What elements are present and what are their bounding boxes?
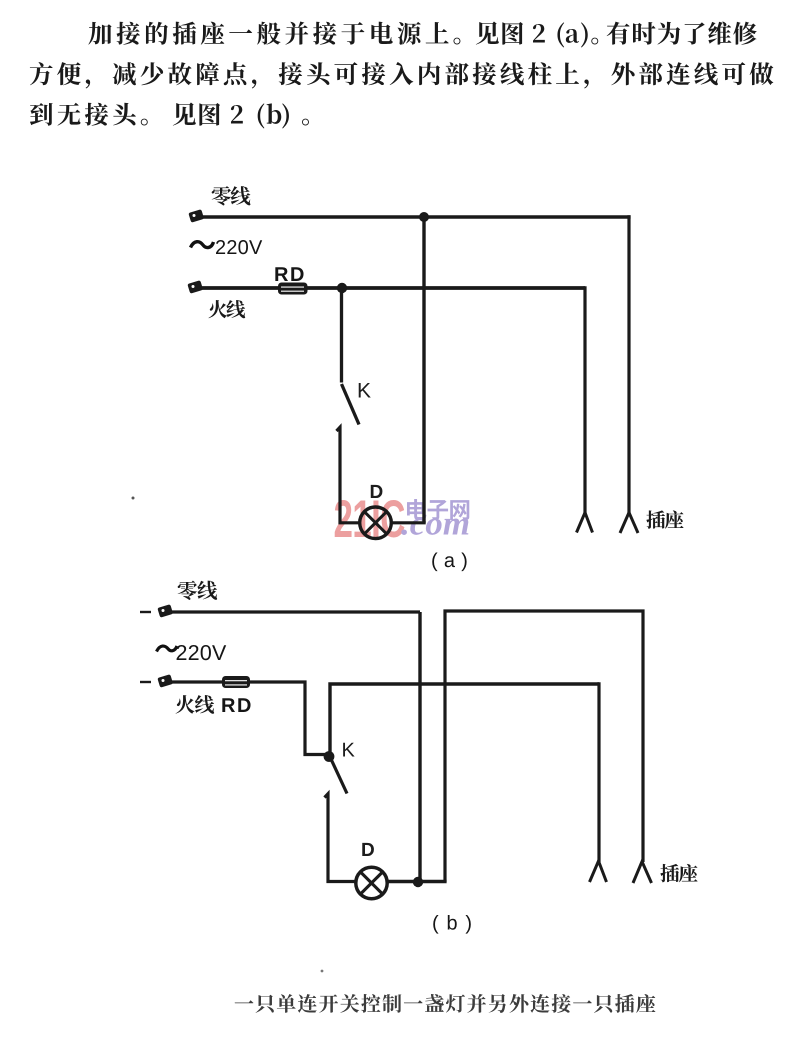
label 火线 (a) [209, 300, 246, 318]
wire: switch to lamp (b) [325, 794, 356, 882]
label ~220V (a) [191, 242, 214, 248]
wire: neutral down to socket prong N (a) [627, 215, 630, 513]
label 零线 (a) [212, 186, 251, 205]
node: neutral input terminal (a) [188, 209, 204, 223]
wire: neutral drop to lamp (a) [422, 217, 425, 523]
label RD (a) [275, 267, 303, 281]
wire: switch to lamp (a) [337, 427, 360, 523]
watermark .com [401, 518, 468, 535]
fuse RD (a) [278, 283, 308, 295]
caption (b) [433, 915, 471, 934]
wire: neutral horizontal (b) [167, 610, 420, 613]
junction dot: neutral at lamp wire (b) [413, 877, 423, 887]
label K (a) [359, 383, 371, 397]
junction dot: live to switch branch (a) [337, 283, 347, 293]
paragraph line 3 [30, 103, 309, 129]
socket prong N (a) [620, 513, 638, 534]
node: neutral input terminal (b) [140, 611, 151, 613]
wire: neutral drop to lamp (b) [418, 612, 421, 883]
lamp D (b) [356, 867, 387, 898]
wire: lamp terminal riser to socket prong N (b) [445, 611, 643, 882]
wire: lamp to neutral drop (a) [392, 521, 426, 524]
label 插座 (b) [660, 864, 697, 882]
node: live input terminal (a) [187, 280, 203, 294]
label 零线 (b) [178, 581, 217, 600]
label D (a) [371, 485, 383, 498]
label D (b) [362, 843, 374, 856]
watermark 电子网 [407, 499, 469, 520]
paragraph line 1 [88, 22, 756, 48]
label ~220V (b) [157, 646, 178, 652]
wire: live horizontal line (a) [196, 286, 585, 290]
fuse RD (b) [222, 676, 250, 688]
label K (b) [343, 743, 354, 757]
speck 1 [132, 497, 135, 500]
socket prong L (b) [590, 861, 607, 882]
label 插座 (a) [646, 510, 683, 528]
lamp D (a) [360, 507, 392, 539]
switch K blade (b) [331, 758, 348, 794]
socket prong L (a) [577, 513, 593, 533]
label 火线 RD (b) [176, 695, 215, 714]
socket prong N (b) [633, 862, 652, 884]
paragraph line 2 [30, 62, 774, 88]
wire: switch branch drop (a) [340, 288, 343, 383]
node: live input terminal (b) [140, 681, 151, 683]
junction dot: switch node (b) [324, 751, 335, 762]
junction dot: neutral to lamp branch (a) [419, 212, 429, 222]
wire: neutral horizontal line (a) [197, 215, 631, 218]
wire: live through fuse to switch drop (b) [167, 682, 328, 755]
speck 2 [321, 970, 324, 973]
figure caption [235, 994, 656, 1013]
wire: switch riser to live bus (b) [330, 684, 599, 757]
caption (a) [432, 553, 466, 572]
switch K blade (a) [342, 384, 360, 425]
watermark 21IC [335, 500, 405, 538]
wire: lamp right to terminal (b) [388, 880, 447, 883]
wire: live bus down to socket prong L (b) [597, 682, 600, 862]
wire: live down to socket prong L (a) [583, 286, 586, 513]
